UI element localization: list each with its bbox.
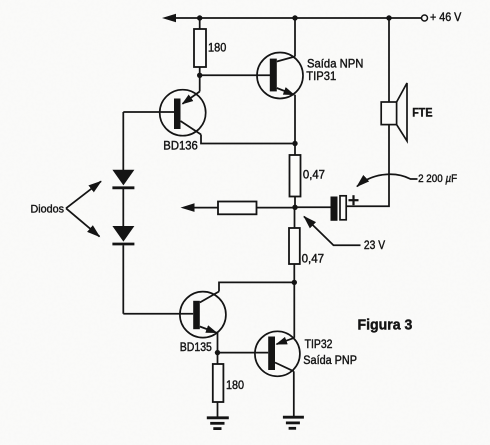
capacitor C1 positive plate	[340, 196, 346, 220]
wire: output node to R3	[294, 207, 296, 228]
svg-text:Figura 3: Figura 3	[358, 317, 413, 333]
diode D1	[112, 170, 134, 188]
node: R1 / TIP31 base / BD136 emitter	[197, 73, 202, 78]
svg-text:TIP32: TIP32	[305, 339, 333, 351]
wire: diode chain down to BD135 base	[122, 245, 124, 314]
wire: +46V top supply rail	[175, 17, 422, 19]
diode D2	[112, 226, 134, 244]
wire: TIP31 collector to rail	[294, 18, 296, 57]
resistor R3 0,47 (lower)	[289, 228, 300, 264]
arrow: output to the left	[181, 203, 195, 212]
resistor R2 0,47 (upper)	[290, 155, 301, 197]
svg-text:Saída PNP: Saída PNP	[303, 355, 357, 367]
svg-text:FTE: FTE	[412, 106, 432, 120]
wire: between diodes	[122, 189, 124, 226]
wire: node to R4	[217, 353, 219, 364]
svg-text:Diodos: Diodos	[31, 203, 65, 215]
wire: BD135 emitter down to node	[217, 333, 219, 353]
label: + polarity mark	[349, 195, 359, 205]
svg-text:23 V: 23 V	[364, 240, 385, 252]
wire: BD136 base wire	[123, 111, 174, 113]
resistor R4 180 (bottom)	[213, 364, 224, 402]
svg-text:BD136: BD136	[163, 140, 198, 152]
svg-text:BD135: BD135	[180, 342, 212, 354]
wire: capacitor to speaker branch	[346, 125, 389, 207]
wire: node to TIP32 base	[218, 352, 269, 354]
ground: below R4	[207, 418, 229, 429]
resistor R1 180 (top)	[194, 29, 206, 67]
wire: TIP32 collector to ground	[293, 371, 295, 417]
node: rail / speaker junction	[386, 15, 391, 20]
node: BD135 emitter / R4 / TIP32 base	[215, 350, 220, 355]
leader: Diodos arrow to D2	[66, 208, 100, 236]
node: rail / R1 junction	[197, 15, 202, 20]
wire: output node to capacitor	[295, 206, 331, 208]
wire: R3 to lower node	[293, 264, 295, 282]
wire: R1 bottom to node	[199, 67, 201, 75]
svg-text:180: 180	[208, 40, 227, 54]
terminal: +46V open circle	[422, 15, 428, 21]
node: R3 / BD135 collector / TIP32 emitter	[292, 280, 297, 285]
wire: output node to series resistor	[257, 207, 296, 209]
transistor Q3 BD135 (NPN)	[180, 292, 226, 338]
speaker FTE	[381, 18, 407, 141]
resistor R5 (series output, unlabeled)	[218, 202, 257, 215]
wire: node down to TIP32 emitter	[293, 282, 295, 337]
node: rail / TIP31 collector junction	[292, 15, 297, 20]
svg-text:0,47: 0,47	[303, 169, 325, 181]
svg-text:180: 180	[226, 378, 244, 392]
wire: rail to R1	[199, 18, 201, 29]
svg-text:+ 46 V: + 46 V	[430, 12, 462, 24]
wire: node left to BD135 collector	[219, 282, 294, 291]
node: output node	[292, 205, 297, 210]
leader: Diodos arrow to D1	[66, 181, 101, 208]
wire: node to R2	[294, 144, 296, 156]
wire: TIP31 emitter down to node	[294, 95, 296, 144]
leader: 2200uF arrow to capacitor	[357, 174, 418, 186]
capacitor C1 2200uF negative plate	[331, 197, 338, 221]
wire: BD136 collector down and right to center node	[201, 135, 295, 144]
wire: BD135 base wire	[123, 313, 193, 315]
svg-text:0,47: 0,47	[302, 253, 325, 265]
transistor Q1 BD136 (PNP)	[160, 75, 206, 135]
wire: BD136 base down to diode chain	[122, 112, 124, 170]
wire: node to TIP31 base	[200, 74, 270, 76]
arrow: rail continues left	[162, 14, 176, 23]
transistor Q4 TIP32 (PNP, Saída PNP)	[255, 331, 300, 376]
leader: 23V arrow to output node	[304, 217, 361, 246]
svg-text:TIP31: TIP31	[306, 69, 336, 83]
wire: R2 to output node	[294, 197, 296, 208]
svg-text:2 200 µF: 2 200 µF	[418, 173, 457, 185]
wire: resistor to output arrow	[194, 207, 218, 209]
ground: below TIP32	[283, 417, 304, 428]
transistor Q2 TIP31 (NPN, Saída NPN)	[257, 53, 303, 99]
wire: R4 to ground	[217, 402, 219, 417]
node: TIP31 emitter / BD136 collector / R2 junction	[292, 141, 297, 146]
